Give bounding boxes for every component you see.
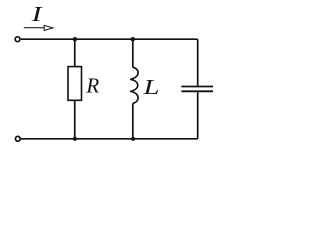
terminal (top-left input)	[15, 37, 20, 42]
current arrow open head	[44, 25, 53, 30]
current arrow shaft	[24, 27, 44, 29]
capacitor bottom plate	[181, 90, 213, 92]
wire capacitor branch bottom lead	[197, 92, 199, 139]
inductor L coil	[130, 67, 138, 103]
junction node top of R	[73, 37, 77, 41]
capacitor top plate	[181, 86, 213, 88]
wire inductor branch top lead	[132, 39, 134, 67]
svg-text:L: L	[142, 76, 159, 99]
wire inductor branch bottom lead	[132, 103, 134, 138]
junction node top of L	[131, 37, 135, 41]
wire bottom rail	[21, 138, 198, 140]
wire top rail	[21, 38, 198, 40]
resistor R body	[68, 67, 82, 101]
terminal (bottom-left input)	[15, 136, 20, 141]
junction node bottom of L	[131, 137, 135, 141]
svg-text:I: I	[31, 2, 44, 26]
wire capacitor branch top lead	[197, 39, 199, 85]
wire resistor branch bottom lead	[74, 100, 76, 139]
svg-text:R: R	[85, 74, 99, 98]
wire resistor branch top lead	[74, 39, 76, 66]
junction node bottom of R	[73, 137, 77, 141]
